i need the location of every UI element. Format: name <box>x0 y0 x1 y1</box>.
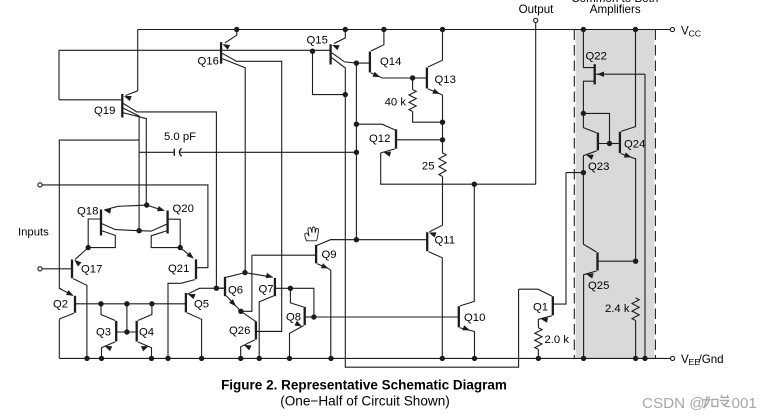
junction Q24 base node <box>607 141 612 146</box>
wire Q7 node to Q8 collector <box>290 288 303 307</box>
wire Q14 collector from rail <box>371 30 384 52</box>
junction base bus at Q4 <box>149 301 154 306</box>
junction bottom rail Q3 <box>99 356 104 361</box>
svg-text:001: 001 <box>732 395 757 412</box>
wire Q15 output 2 <box>332 58 346 95</box>
wire Q19 collector from VCC rail <box>137 30 139 91</box>
svg-text:Q16: Q16 <box>198 56 219 68</box>
svg-text:Q18: Q18 <box>77 206 98 218</box>
svg-text:Q19: Q19 <box>94 105 115 117</box>
wire Q8 base stub <box>305 316 314 318</box>
transistor Q1 <box>552 296 554 315</box>
svg-text:(One−Half of Circuit Shown): (One−Half of Circuit Shown) <box>280 393 450 408</box>
junction input pair emitters <box>144 202 149 207</box>
svg-text:CC: CC <box>689 29 702 39</box>
wire Q3 collector <box>101 304 115 321</box>
wire Q26 base <box>256 330 282 332</box>
terminal Output <box>534 18 538 22</box>
wire Q23 emitter to Q1 <box>566 172 583 174</box>
junction Q15 base on rail <box>310 49 315 54</box>
wire Q15 base loop <box>313 51 346 94</box>
wire Q23 base loop <box>583 113 609 143</box>
wire Q19 output A <box>123 104 216 289</box>
junction bottom rail Q7 <box>257 356 262 361</box>
junction bottom rail Q22 <box>642 356 647 361</box>
junction bottom rail 2.4k <box>633 356 638 361</box>
wire Q20 output lower <box>151 231 180 248</box>
junction base bus at Q3/Q4 mid <box>124 301 129 306</box>
junction base bus at Q3 <box>98 301 103 306</box>
shaded region common to both amplifiers <box>576 30 655 359</box>
svg-text:Q2: Q2 <box>53 299 68 311</box>
svg-text:CSDN @: CSDN @ <box>642 395 705 412</box>
wire Q22 lower to Q23 <box>583 81 594 113</box>
transistor Q19 <box>121 94 123 118</box>
junction Q18 base/collector <box>86 245 91 250</box>
wire Q14 node to Q13 base <box>413 77 427 79</box>
wire Q16 collector from rail <box>225 30 237 43</box>
wire capacitor right lead <box>180 151 356 153</box>
svg-text:Q13: Q13 <box>435 74 456 86</box>
junction top rail at Q16 <box>234 27 239 32</box>
svg-text:Q11: Q11 <box>435 235 456 247</box>
wire Q22 collector <box>583 30 594 68</box>
svg-text:Q22: Q22 <box>586 51 607 63</box>
svg-text:Q5: Q5 <box>194 299 209 311</box>
wire Q23 collector <box>583 113 596 132</box>
wire Q6 base stub <box>216 287 225 289</box>
junction 40k top <box>410 75 415 80</box>
wire Q12 emitter to output line <box>381 153 536 184</box>
junction top rail at Q13 <box>440 27 445 32</box>
wire capacitor left lead <box>139 151 174 153</box>
resistor 2.0 k <box>535 328 542 350</box>
mouse hand cursor <box>305 227 319 241</box>
wire Q4 collector <box>138 304 152 321</box>
wire Q16 output a to Q26 base <box>222 53 282 331</box>
wire Q15 collector from rail <box>334 30 345 44</box>
svg-text:Q6: Q6 <box>228 285 243 297</box>
transistor Q18 <box>100 210 102 236</box>
junction Q12 collector node <box>354 122 359 127</box>
svg-text:Q8: Q8 <box>286 312 301 324</box>
junction top rail at Q14 <box>381 27 386 32</box>
transistor Q14 <box>369 52 371 73</box>
svg-text:Q9: Q9 <box>322 249 337 261</box>
junction Q8 base node <box>311 314 316 319</box>
junction output line to Q10 <box>472 182 477 187</box>
junction bottom rail Q8 <box>287 356 292 361</box>
transistor Q15 <box>329 44 331 64</box>
transistor Q5 <box>185 293 187 312</box>
resistor 25 <box>439 153 446 177</box>
transistor Q25 <box>596 252 598 270</box>
wire Q25 collector <box>583 173 596 252</box>
wire Q3/Q4 base feed <box>126 304 128 332</box>
wire Q18 output upper <box>102 224 139 231</box>
transistor Q21 <box>195 259 197 279</box>
wire Q12 base <box>396 139 443 141</box>
junction bottom rail Q21 <box>165 356 170 361</box>
wire Q24 collector from VCC <box>621 30 636 132</box>
svg-text:Q7: Q7 <box>259 284 274 296</box>
svg-text:2.0 k: 2.0 k <box>545 334 570 346</box>
svg-text:40 k: 40 k <box>385 96 407 108</box>
svg-text:Q1: Q1 <box>533 302 548 314</box>
svg-text:2.4 k: 2.4 k <box>605 303 630 315</box>
terminal VEE/Gnd <box>671 356 675 360</box>
wire bottom rail VEE <box>59 357 670 359</box>
wire Q5 collector node <box>200 287 226 289</box>
svg-text:Q10: Q10 <box>464 312 485 324</box>
wire Q3/Q4 base <box>116 331 137 333</box>
wire Q15 node down to lower elbow <box>345 95 518 368</box>
junction Q25 base to Q24 emitter <box>633 259 638 264</box>
svg-text:/Gnd: /Gnd <box>699 353 724 366</box>
wire 25 bottom to Q11 emitter <box>430 177 443 232</box>
junction Q6 emitter node <box>238 309 243 314</box>
svg-text:Q20: Q20 <box>173 203 194 215</box>
wire Q19 output B <box>123 108 139 231</box>
transistor Q9 <box>315 245 317 264</box>
svg-text:Q14: Q14 <box>380 56 401 68</box>
wire base bus Q2/Q3/Q4/Q5 <box>75 303 186 305</box>
junction 40k bottom to Q13 emitter line <box>440 120 445 125</box>
dashed border right of shaded region <box>654 30 656 359</box>
junction Q3/Q4 base <box>124 329 129 334</box>
junction bottom rail Q11 <box>440 356 445 361</box>
svg-text:Q15: Q15 <box>307 35 328 47</box>
junction bottom rail Q25 <box>581 356 586 361</box>
wire Q22 emitter down to rail <box>644 74 646 358</box>
junction Q23 emitter node <box>581 170 586 175</box>
junction bottom rail Q17 <box>84 356 89 361</box>
junction Q7 base node <box>288 286 293 291</box>
transistor Q4 <box>136 321 138 342</box>
wire VCC top rail <box>138 29 670 31</box>
wire Q8 base to Q10 base <box>314 316 459 318</box>
junction Q20 base/collector <box>178 245 183 250</box>
wire Q6 node to Q26 collector <box>241 311 256 321</box>
wire Q18 output lower <box>88 231 115 248</box>
svg-text:Figure 2. Representative Schem: Figure 2. Representative Schematic Diagr… <box>221 378 507 393</box>
wire Q15 output 1 to Q14 base <box>332 53 370 63</box>
transistor Q20 <box>166 211 168 234</box>
transistor Q13 <box>426 68 428 89</box>
wire Q7 base to Q8 node <box>275 288 314 317</box>
wire Q13 collector from rail <box>428 30 443 68</box>
wire input 1 to Q21 base <box>42 185 208 268</box>
svg-text:Q3: Q3 <box>96 327 111 339</box>
junction bottom rail Q4 <box>149 356 154 361</box>
transistor Q3 <box>115 321 117 342</box>
transistor Q17 <box>71 260 73 279</box>
svg-text:Q17: Q17 <box>81 264 102 276</box>
junction cross line <box>136 228 141 233</box>
svg-text:Q12: Q12 <box>369 133 390 145</box>
wire Q15 output 1 vertical <box>355 63 357 240</box>
resistor 2.4 k <box>632 298 639 321</box>
transistor Q22 <box>594 64 596 84</box>
wire Q20 output upper <box>139 224 166 231</box>
junction Q5/Q6 node <box>214 286 219 291</box>
transistor Q26 <box>255 321 257 339</box>
terminal input 2 <box>38 267 42 271</box>
svg-text:Q26: Q26 <box>229 325 250 337</box>
wire Q1 base to Q23 emitter line <box>553 173 566 305</box>
junction bottom rail Q9 <box>328 356 333 361</box>
svg-text:Inputs: Inputs <box>18 227 49 239</box>
junction Q15 line at Q14 base <box>354 60 359 65</box>
junction bottom rail 2.0k <box>536 356 541 361</box>
wire Q10 collector from output line <box>460 184 474 306</box>
junction Q12 base node <box>440 137 445 142</box>
svg-text:Q24: Q24 <box>624 139 645 151</box>
wire Q11 collector down <box>429 252 443 359</box>
junction Q11 base node <box>354 237 359 242</box>
transistor Q2 <box>74 296 76 313</box>
junction bottom rail Q26 <box>238 356 243 361</box>
dashed border left of shaded region <box>573 30 575 359</box>
junction bottom rail Q10 <box>472 356 477 361</box>
wire Q13 emitter down <box>442 95 444 153</box>
transistor Q6 <box>224 277 226 296</box>
wire Q11 base <box>356 239 427 241</box>
junction Q15 emitter loop <box>343 92 348 97</box>
junction VCC to Q22 <box>581 27 586 32</box>
resistor 40 k <box>412 78 414 90</box>
transistor Q10 <box>458 306 460 327</box>
wire Q19 output C <box>123 113 146 205</box>
wire Q25 base <box>598 260 636 262</box>
transistor Q7 <box>274 278 276 296</box>
svg-text:Q25: Q25 <box>588 280 609 292</box>
junction capacitor to vertical <box>354 150 359 155</box>
wire Q16 output b to Q6/Q7 <box>222 59 245 273</box>
junction VCC to Q24 <box>633 27 638 32</box>
svg-text:25: 25 <box>422 161 435 173</box>
wire Q12 collector <box>356 124 395 130</box>
svg-text:Output: Output <box>519 3 555 16</box>
junction top rail at Q15 <box>343 27 348 32</box>
wire input 2 to Q17 base <box>42 268 72 270</box>
wire output vertical <box>535 23 537 185</box>
junction Q6/Q7 emitters <box>242 270 247 275</box>
svg-text:5.0 pF: 5.0 pF <box>164 131 196 143</box>
wire Q9 base <box>252 254 316 256</box>
svg-text:Q4: Q4 <box>139 327 154 339</box>
transistor Q8 <box>304 307 306 325</box>
terminal VCC <box>670 27 674 31</box>
svg-text:Q21: Q21 <box>168 263 189 275</box>
wire second rail (bias) <box>59 50 331 100</box>
transistor Q24 <box>619 132 621 153</box>
wire Q6 node to Q9 base <box>241 255 252 311</box>
junction bottom rail Q5 <box>199 356 204 361</box>
transistor Q11 <box>426 232 428 251</box>
transistor Q23 <box>597 133 599 151</box>
wire Q19 B tap to Q2 collector <box>59 140 139 289</box>
svg-text:Amplifiers: Amplifiers <box>590 3 641 16</box>
transistor Q12 <box>395 129 397 148</box>
junction Q23 node <box>581 111 586 116</box>
wire Q14 emitter to 40k node <box>382 77 413 79</box>
svg-text:Q23: Q23 <box>588 161 609 173</box>
terminal input 1 <box>38 183 42 187</box>
transistor Q16 <box>220 42 222 64</box>
capacitor C1 5.0 pF <box>173 149 175 156</box>
